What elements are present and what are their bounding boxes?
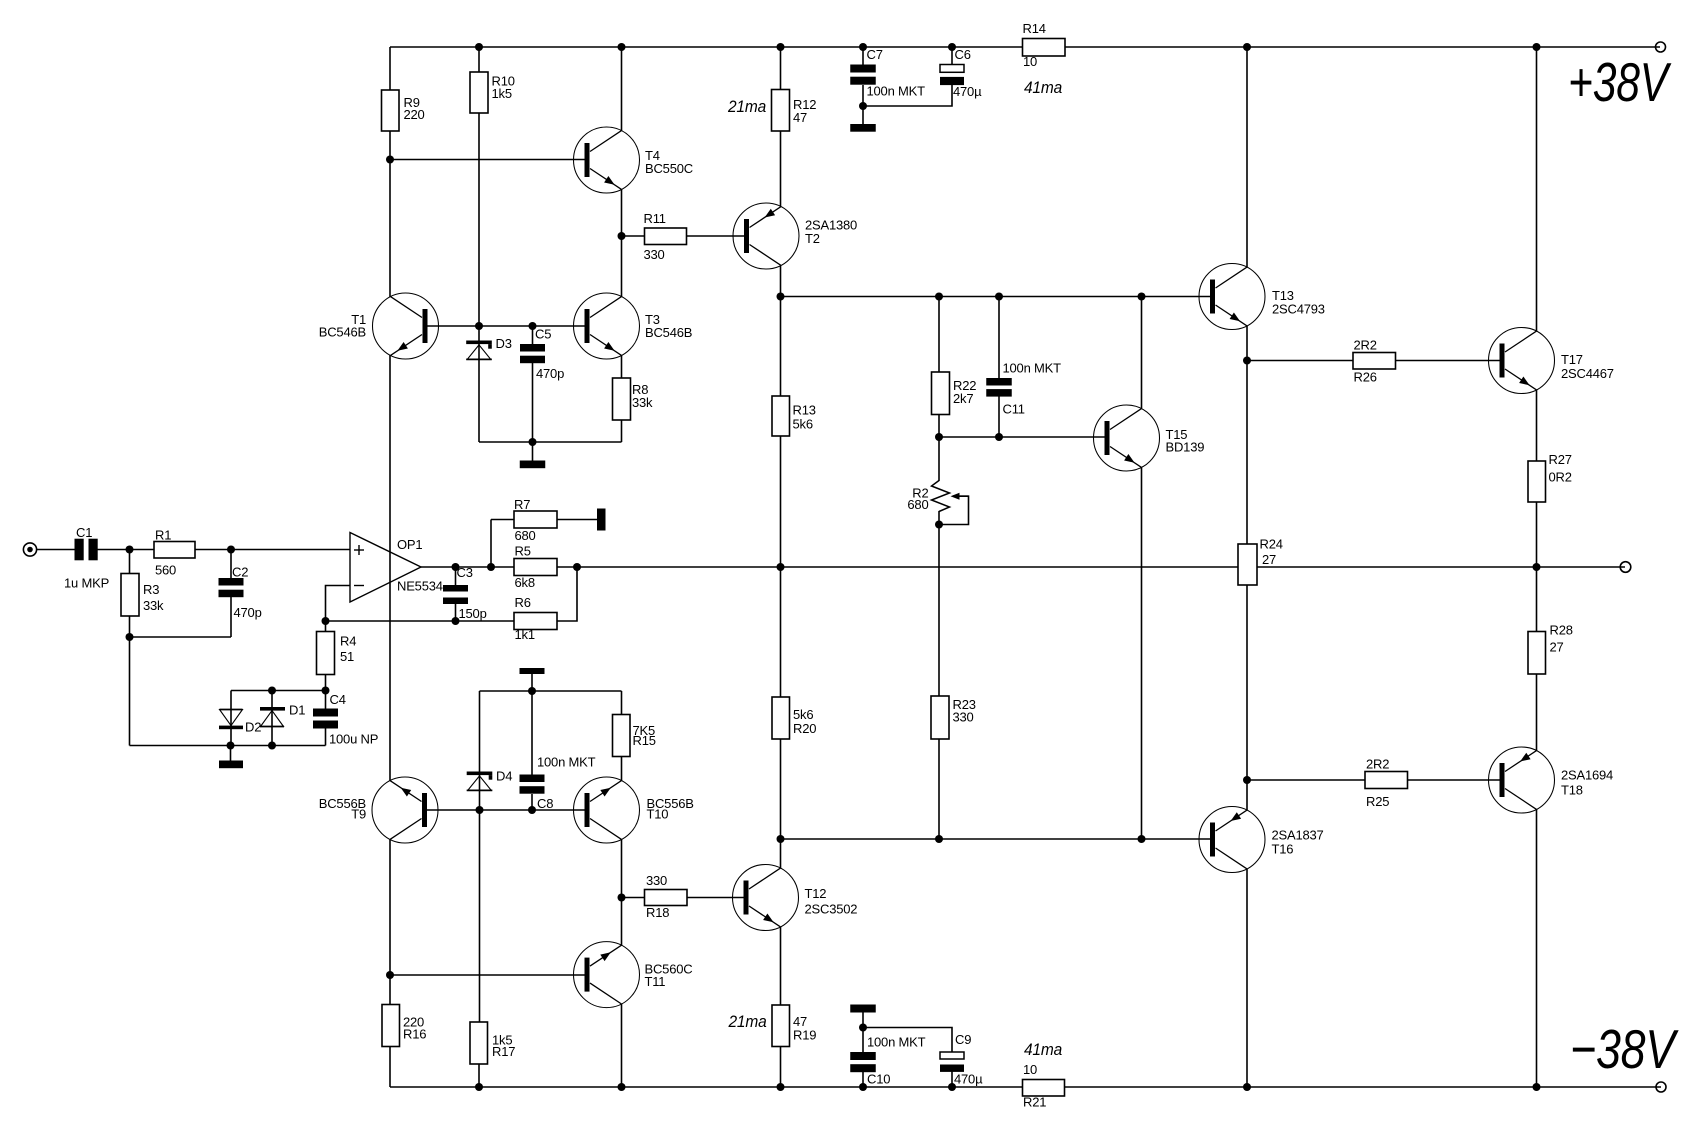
wire C8 top stem [531,691,533,775]
resistor R24 [1238,544,1257,585]
wire C7 top stem [862,47,864,65]
junction [528,806,536,814]
wire T1 base [428,325,480,327]
svg-text:C2: C2 [232,565,248,580]
wire R3/C2 bottom link [130,636,232,638]
transistor T13 [1199,264,1265,330]
svg-text:680: 680 [907,497,928,512]
wire node to T12 collector [780,839,782,868]
junction [1243,357,1251,365]
resistor R20 [772,697,790,739]
junction [995,293,1003,301]
svg-text:R26: R26 [1354,370,1377,385]
wire T1 base node to T3 base [479,325,585,327]
junction [322,687,330,695]
svg-text:51: 51 [340,649,354,664]
wire R15 top [621,691,623,715]
capacitor C10 [850,1052,876,1060]
resistor R28 [1528,632,1546,675]
svg-text:41ma: 41ma [1024,1040,1062,1059]
svg-text:5k6: 5k6 [793,417,813,432]
wire R25 left lead [1247,779,1365,781]
svg-text:330: 330 [646,873,667,888]
svg-text:T2: T2 [805,231,820,246]
wire R28 to T18 [1536,674,1538,751]
svg-text:R24: R24 [1260,537,1283,552]
resistor R5 [514,559,557,576]
wire feedback line R6 [326,620,515,622]
transistor T15 [1094,405,1160,471]
svg-text:100u NP: 100u NP [329,732,378,747]
junction [859,102,867,110]
wire D3 stem [478,326,480,442]
junction [1533,43,1541,51]
+38V supply terminal [1656,42,1666,52]
wire R2 node down to R23 [938,525,940,697]
wire C7 bottom stem [862,85,864,106]
junction [777,1083,785,1091]
svg-text:R17: R17 [492,1044,515,1059]
svg-text:150p: 150p [459,606,487,621]
resistor R21 [1023,1080,1065,1097]
svg-text:R28: R28 [1550,623,1573,638]
junction [475,43,483,51]
diode D4 [467,772,493,776]
wire node to T1 collector [389,160,391,297]
wire T15 collector up [1141,297,1143,409]
wire R25 to T18 base [1408,779,1501,781]
wire C11 top stem [998,297,1000,379]
junction [268,742,276,750]
wire output node down to R20 [780,567,782,697]
junction [573,563,581,571]
wire R12 top to rail [780,47,782,90]
resistor R4 [317,632,335,675]
capacitor C6 [940,65,964,73]
svg-text:C10: C10 [867,1072,890,1087]
wire R11 node to T3 collector [621,236,623,297]
svg-text:R5: R5 [515,544,531,559]
junction [935,835,943,843]
svg-text:100n MKT: 100n MKT [1003,361,1062,376]
resistor R23 [931,696,949,739]
junction [268,687,276,695]
capacitor C1 [75,539,84,561]
wire output node to R28 [1536,567,1538,632]
junction [475,322,483,330]
svg-text:220: 220 [404,107,425,122]
capacitor C2 [219,578,244,586]
svg-text:100n MKT: 100n MKT [867,1035,926,1050]
junction [618,1083,626,1091]
svg-text:T11: T11 [645,974,666,989]
junction [1243,43,1251,51]
wire D2 stem [230,691,232,746]
svg-text:33k: 33k [632,395,653,410]
svg-text:100n MKT: 100n MKT [537,755,596,770]
wire C5 top stem [532,326,534,344]
ground [219,761,243,769]
wire inverted ground stem [531,674,533,691]
wire C4 bottom stem [325,729,327,746]
svg-text:R25: R25 [1366,794,1389,809]
wire T13 collector to rail [1246,47,1248,267]
resistor R8 [613,378,631,420]
wire R15 to T10 emitter [621,757,623,781]
wire T9 collector down to T11 base node [389,839,391,975]
wire C4 top stem [325,691,327,709]
svg-text:BD139: BD139 [1166,440,1205,455]
wire R22 bottom to bias node [938,415,940,438]
resistor R7 [514,511,557,528]
transistor T18 [1489,747,1555,813]
wire T4 base line [390,159,585,161]
wire C7/C6 bottom link [863,85,952,106]
svg-text:C3: C3 [457,565,473,580]
svg-text:R20: R20 [793,721,816,736]
wire lower zener cell top line [480,690,622,692]
output terminal [1620,562,1631,573]
svg-text:C7: C7 [867,47,883,62]
svg-text:2R2: 2R2 [1354,338,1377,353]
svg-text:33k: 33k [143,598,164,613]
junction [777,293,785,301]
wire R11 to T2 base [687,235,745,237]
svg-text:R27: R27 [1549,452,1572,467]
wire T18 emitter down to bottom rail [1536,809,1538,1087]
wire T10 collector to R18 node [621,839,623,897]
wire T11 emitter to bottom rail [621,1004,623,1087]
junction [475,1083,483,1091]
wire C10 bottom stem [862,1072,864,1087]
svg-text:21ma: 21ma [727,97,766,116]
wire T1 emitter down to T9 [389,355,391,780]
svg-text:470p: 470p [536,366,564,381]
svg-text:BC546B: BC546B [645,325,692,340]
wire R19 to bottom rail [780,1047,782,1088]
svg-text:C11: C11 [1003,402,1025,417]
wire lower bias line to T16 base [781,838,1211,840]
svg-text:470µ: 470µ [954,1072,983,1087]
svg-text:R4: R4 [340,634,356,649]
resistor R22 [932,372,950,415]
svg-text:2SC4467: 2SC4467 [1561,366,1614,381]
wire ground loop left [129,637,131,746]
junction [529,438,537,446]
wire R9 to T4 base node [389,131,391,160]
wire T16 emitter to bottom rail [1246,869,1248,1087]
junction [126,546,134,554]
svg-text:R1: R1 [155,528,171,543]
junction [777,43,785,51]
wire opamp - feedback [326,586,351,622]
wire R7 branch up [490,520,492,568]
wire R2 top stem [938,437,940,481]
svg-text:C8: C8 [537,796,553,811]
junction [386,156,394,164]
wire diode cell top [231,690,326,692]
wire R18 node to T11 [621,898,623,946]
resistor R9 [382,90,400,131]
transistor T4 [574,127,640,193]
wire R4 bottom to node [325,675,327,691]
wire R11 left lead [622,235,645,237]
wire diode cell bottom [130,745,326,747]
junction [1243,1083,1251,1091]
svg-text:+38V: +38V [1568,51,1671,113]
svg-text:10: 10 [1023,54,1037,69]
svg-text:47: 47 [793,110,807,125]
transistor T9 [372,777,438,843]
resistor R19 [772,1005,790,1047]
wire C6 top stem [951,47,953,65]
wire T13 emitter to R26 node [1246,326,1248,361]
wire C2 top stem [230,550,232,579]
wire R26 left lead [1247,360,1353,362]
wire C5 bottom stem [532,363,534,443]
junction [487,563,495,571]
wire C10 top stem [862,1028,864,1053]
wire T17 collector to rail [1536,47,1538,331]
wire node to R13 [780,297,782,397]
inverted ground [850,1005,876,1013]
svg-text:BC550C: BC550C [645,161,693,176]
svg-text:100n MKT: 100n MKT [867,84,926,99]
wire R8 bottom [621,420,623,442]
wire R10 down to T1 base node [478,113,480,326]
junction [618,43,626,51]
svg-text:R11: R11 [644,211,666,226]
svg-text:D1: D1 [289,703,305,718]
op-amp OP1 [350,533,421,603]
-38V supply terminal [1656,1082,1666,1092]
wire R2 bottom stem [938,511,940,525]
svg-text:C9: C9 [955,1032,971,1047]
wire R4 top [325,621,327,632]
ground [850,124,876,132]
resistor R26 [1353,353,1396,370]
wire R3 top stem [129,550,131,574]
wire T15 emitter down to lower bias line [1141,467,1143,839]
junction [859,1083,867,1091]
wire T17 emitter to R27 [1536,390,1538,461]
junction [528,687,536,695]
svg-text:41ma: 41ma [1024,78,1062,97]
wire C2 bottom stem [230,597,232,637]
junction [476,806,484,814]
svg-text:R19: R19 [793,1028,816,1043]
wire C7 ground stem [862,106,864,124]
capacitor C8 [520,775,545,783]
svg-text:R14: R14 [1023,21,1046,36]
svg-text:5k6: 5k6 [793,707,813,722]
transistor T3 [574,293,640,359]
wire node to R16 [389,975,391,1005]
junction [935,521,943,529]
wire R18 left lead [622,897,645,899]
svg-text:R21: R21 [1023,1095,1046,1110]
wire R27 to output node [1536,502,1538,567]
junction [1138,293,1146,301]
wire R26 to T17 base [1396,360,1500,362]
capacitor C3 [443,585,468,592]
wire R24 upper segment [1246,361,1248,545]
wire C10/C9 top link [863,1028,952,1053]
svg-text:D2: D2 [245,720,261,735]
wire R16 to bottom rail [389,1047,391,1088]
svg-text:D3: D3 [496,336,512,351]
junction [948,1083,956,1091]
wire D4 stem [479,691,481,810]
capacitor C7 [850,65,876,73]
resistor R1 [154,542,195,559]
svg-text:R15: R15 [633,733,656,748]
svg-text:BC546B: BC546B [319,325,366,340]
wire R7 left lead [491,519,514,521]
wire bias cell bottom [479,441,622,443]
wire C8 bottom stem [531,794,533,810]
svg-text:330: 330 [644,247,665,262]
svg-text:2SA1694: 2SA1694 [1561,768,1613,783]
wire C3 top stem [455,567,457,585]
resistor R17 [470,1022,488,1064]
transistor T12 [733,865,799,931]
svg-text:330: 330 [953,710,974,725]
svg-text:R7: R7 [514,497,530,512]
input terminal [23,543,36,556]
ground [520,461,546,469]
svg-text:OP1: OP1 [397,537,422,552]
wire R18 to T12 base [687,897,744,899]
resistor R18 [645,890,688,906]
wire T3 emitter to R8 [621,355,623,378]
svg-text:T10: T10 [647,807,669,822]
svg-text:C5: C5 [535,327,551,342]
junction [1533,563,1541,571]
wire R17 feed from base node [479,810,481,1022]
wire C11 bottom stem [998,397,1000,438]
svg-text:T12: T12 [805,886,827,901]
resistor R25 [1365,772,1408,789]
junction [452,617,460,625]
svg-text:470p: 470p [234,605,262,620]
wire C1 to R1 [98,549,155,551]
svg-text:C4: C4 [330,692,346,707]
wire T4 collector to rail [621,47,623,131]
svg-text:T18: T18 [1561,783,1583,798]
svg-text:10: 10 [1023,1062,1037,1077]
wire R1 to opamp + [195,549,350,551]
resistor R13 [772,396,790,436]
wire T2 collector down [780,265,782,296]
wire C9 bottom stem [951,1072,953,1088]
wire R20 to lower bias node [780,739,782,839]
wire R13 to output rail [780,436,782,567]
wire output rail [421,566,1625,568]
svg-text:0R2: 0R2 [1549,470,1572,485]
svg-text:T9: T9 [351,807,366,822]
transistor T2 [733,203,799,269]
svg-text:21ma: 21ma [728,1012,767,1031]
ground [597,509,606,531]
wire R7 to ground [557,519,597,521]
diode D1 [260,707,285,711]
resistor R27 [1528,461,1546,502]
svg-text:1u MKP: 1u MKP [64,576,109,591]
resistor R15 [613,715,631,757]
svg-text:27: 27 [1550,640,1564,655]
transistor T10 [574,777,640,843]
resistor R10 [470,72,488,113]
junction [227,742,235,750]
capacitor C5 [520,344,545,352]
wire R17 to bottom rail [478,1064,480,1087]
svg-text:D4: D4 [496,769,512,784]
capacitor C4 [313,709,338,717]
resistor R3 [121,574,139,617]
wire R10 top feed [478,47,480,72]
wire ground stem [230,746,232,761]
junction [859,1024,867,1032]
wire C10 inverted ground stem [862,1013,864,1028]
junction [995,433,1003,441]
wire bias top line to T13 base [781,296,1211,298]
junction [1533,1083,1541,1091]
svg-text:NE5534: NE5534 [397,579,443,594]
svg-text:2SC4793: 2SC4793 [1272,302,1325,317]
svg-text:2SA1837: 2SA1837 [1272,828,1324,843]
wire input lead [37,549,75,551]
inverted ground [520,668,545,674]
wire D1 stem [271,691,273,746]
wire T16 collector up [1246,780,1248,810]
wire R9 top feed [389,47,391,90]
junction [227,546,235,554]
trimmer R2 [932,481,950,512]
svg-text:T17: T17 [1561,352,1583,367]
svg-text:R16: R16 [403,1027,426,1042]
svg-text:C6: C6 [955,47,971,62]
svg-text:680: 680 [515,528,536,543]
junction [529,322,537,330]
junction [859,43,867,51]
junction [452,563,460,571]
junction [777,563,785,571]
transistor T16 [1199,807,1265,873]
wire R2 wiper [939,496,969,524]
svg-text:2k7: 2k7 [953,391,973,406]
transistor T11 [574,942,640,1008]
svg-text:560: 560 [155,563,176,578]
capacitor C9 [940,1052,964,1059]
wire T11 base line [390,974,585,976]
capacitor C11 [986,378,1012,386]
transistor T1 [373,293,439,359]
junction [935,433,943,441]
svg-text:R6: R6 [515,595,531,610]
junction [1138,835,1146,843]
resistor R6 [514,613,557,630]
junction [618,894,626,902]
svg-text:R13: R13 [793,403,816,418]
resistor R14 [1023,39,1066,57]
wire R24 lower segment [1246,585,1248,780]
svg-text:6k8: 6k8 [515,575,535,590]
resistor R12 [772,90,790,132]
wire ground stem C5 [532,442,534,461]
junction [935,293,943,301]
wire C3 bottom stem [455,604,457,621]
